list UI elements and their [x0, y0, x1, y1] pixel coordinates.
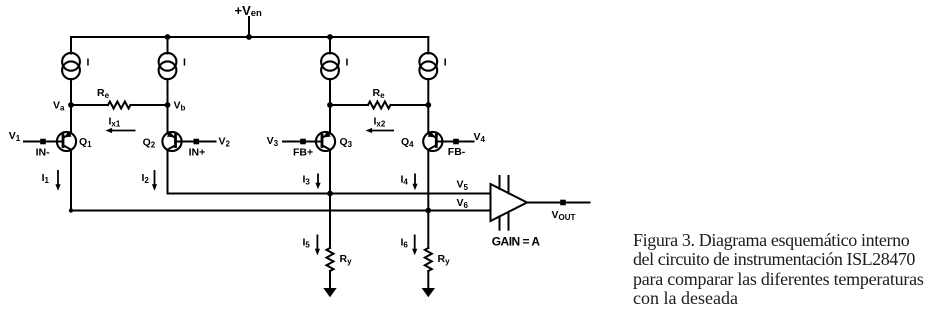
node V6-branch4 junction — [425, 208, 431, 214]
wire +Ven stub — [248, 17, 250, 37]
current arrow I1 — [55, 170, 60, 191]
node branch4 Re — [425, 102, 431, 108]
current arrow I2 — [152, 170, 157, 191]
svg-text:I: I — [346, 57, 349, 69]
svg-text:Re: Re — [373, 87, 386, 100]
svg-text:Q3: Q3 — [340, 136, 353, 149]
svg-text:IN-: IN- — [36, 146, 51, 158]
wire branch1 Q1 collector down to V6 — [70, 150, 72, 211]
svg-text:I: I — [183, 57, 186, 69]
current arrow Ix1 — [106, 128, 136, 133]
svg-text:Q1: Q1 — [79, 136, 92, 149]
resistor Re (right) — [330, 102, 428, 109]
wire branch2 Q2 collector down to V5 — [167, 150, 169, 194]
node branch3 Re — [327, 102, 333, 108]
wire branch3 node to Q3 — [329, 105, 331, 133]
svg-text:Vb: Vb — [174, 100, 186, 113]
node rail-branch2 junction — [165, 34, 171, 40]
wire branch2 top — [167, 37, 169, 105]
op-amp U1 — [491, 176, 528, 230]
wire V5 line — [168, 193, 491, 195]
current arrow Ix2 — [366, 128, 395, 133]
wire branch2 Vb to Q2 — [167, 105, 169, 133]
svg-text:V6: V6 — [457, 197, 469, 210]
input pad IN- — [40, 139, 46, 145]
svg-text:V1: V1 — [9, 130, 21, 143]
wire top supply rail — [71, 36, 428, 38]
svg-text:V4: V4 — [474, 131, 486, 144]
wire branch4 node to Q4 — [427, 105, 429, 133]
wire branch4 top — [427, 37, 429, 105]
current source I (branch1) — [62, 53, 80, 79]
transistor Q4 — [423, 131, 473, 151]
current arrow I6 — [412, 235, 417, 256]
svg-text:FB-: FB- — [448, 146, 466, 158]
node rail-branch3 junction — [327, 34, 333, 40]
figure caption — [633, 231, 928, 309]
output pad VOUT — [560, 200, 566, 206]
node V5-branch3 junction — [327, 191, 333, 197]
current arrow I3 — [315, 174, 320, 190]
svg-text:V3: V3 — [267, 135, 279, 148]
current source I (branch2) — [159, 53, 177, 79]
input pad FB- — [453, 139, 459, 145]
node V6-branch1 corner — [69, 208, 73, 212]
svg-text:Ry: Ry — [340, 253, 353, 266]
svg-text:I2: I2 — [142, 172, 150, 185]
resistor Ry (left) — [327, 248, 334, 271]
node Va — [68, 102, 74, 108]
current arrow I4 — [412, 174, 417, 191]
svg-text:Q2: Q2 — [143, 136, 156, 149]
input pad FB+ — [300, 139, 306, 145]
transistor Q2 — [162, 131, 215, 151]
node Vb — [165, 102, 171, 108]
node +Ven tap — [246, 34, 252, 40]
svg-text:+Ven: +Ven — [235, 3, 263, 19]
svg-text:I: I — [444, 57, 447, 69]
resistor Ry (right) — [425, 248, 432, 271]
svg-text:Q4: Q4 — [401, 136, 414, 149]
svg-text:IN+: IN+ — [189, 146, 206, 158]
svg-text:V2: V2 — [219, 136, 231, 149]
svg-text:GAIN = A: GAIN = A — [492, 235, 541, 249]
current source I (branch3) — [321, 53, 339, 79]
ground (left) — [323, 288, 336, 297]
wire op-amp output — [527, 202, 590, 204]
svg-text:I4: I4 — [401, 174, 409, 187]
svg-text:I3: I3 — [303, 174, 311, 187]
svg-text:I6: I6 — [401, 237, 409, 250]
svg-text:Ry: Ry — [438, 253, 451, 266]
input pad IN+ — [194, 139, 200, 145]
svg-text:V5: V5 — [457, 179, 469, 192]
wire V6 line — [71, 210, 491, 212]
wire branch1 top — [70, 37, 72, 105]
transistor Q1 — [24, 131, 76, 151]
current source I (branch4) — [419, 53, 437, 79]
current arrow I5 — [315, 235, 320, 256]
wire branch4 Q4 collector down to Ry — [427, 150, 429, 248]
svg-text:I: I — [87, 57, 90, 69]
svg-text:Re: Re — [97, 87, 110, 100]
wire branch1 Va to Q1 — [70, 105, 72, 133]
transistor Q3 — [283, 131, 335, 151]
wire branch3 Q3 collector down to Ry — [329, 150, 331, 248]
wire branch3 top — [329, 37, 331, 105]
ground (right) — [422, 288, 435, 297]
resistor Re (left) — [71, 102, 168, 109]
wire Ry2 to ground — [427, 271, 429, 289]
svg-text:I5: I5 — [303, 237, 311, 250]
svg-text:Ix2: Ix2 — [374, 116, 386, 129]
svg-text:FB+: FB+ — [293, 146, 313, 158]
svg-text:Va: Va — [53, 100, 65, 113]
svg-text:Ix1: Ix1 — [109, 116, 121, 129]
svg-text:I1: I1 — [42, 172, 50, 185]
wire Ry1 to ground — [329, 271, 331, 289]
svg-text:VOUT: VOUT — [552, 209, 576, 222]
